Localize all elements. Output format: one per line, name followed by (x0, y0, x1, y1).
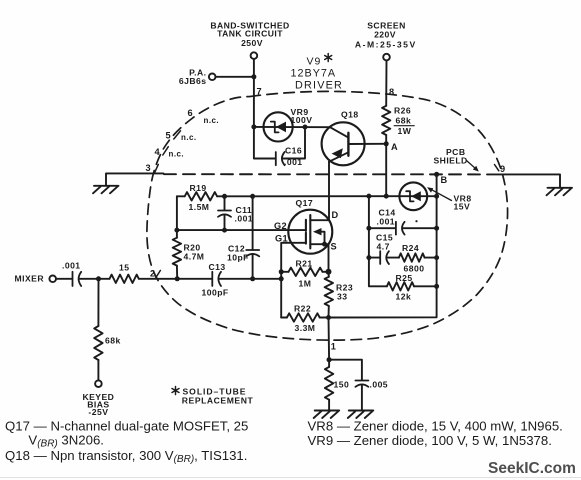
svg-text:n.c.: n.c. (169, 150, 185, 159)
wire: G1 leg (281, 243, 306, 318)
svg-text:100V: 100V (291, 115, 313, 125)
wire: G2 row (177, 229, 306, 231)
svg-text:33: 33 (337, 291, 347, 301)
svg-text:R22: R22 (294, 303, 311, 313)
svg-text:12k: 12k (396, 291, 412, 301)
svg-text:C16: C16 (285, 146, 302, 156)
resistor R25 12k (387, 273, 437, 301)
svg-text:1.5M: 1.5M (189, 202, 210, 212)
capacitor C14 .001 (369, 207, 437, 234)
node: VR8 right (434, 194, 439, 199)
svg-text:6: 6 (188, 108, 193, 118)
node: R22/R23/pin1 junction (326, 315, 331, 320)
svg-text:C13: C13 (209, 262, 226, 272)
svg-text:n.c.: n.c. (204, 116, 220, 125)
resistor R20 4.7M (173, 230, 205, 279)
resistor R22 3.3M (281, 303, 328, 333)
svg-text:R25: R25 (396, 273, 413, 283)
svg-text:R21: R21 (296, 259, 313, 269)
node: VR9 right / C16 / Q18 base junction (303, 125, 308, 130)
pin tick 9 (495, 165, 499, 171)
svg-text:-25V: -25V (88, 407, 108, 417)
terminal: P.A. 6JB6s (179, 67, 216, 86)
node: R25 right (434, 284, 439, 289)
svg-text:1M: 1M (299, 278, 312, 288)
capacitor C13 100pF (177, 262, 252, 297)
svg-text:4: 4 (155, 147, 161, 157)
svg-text:Q17 — N-channel dual-gate MOSF: Q17 — N-channel dual-gate MOSFET, 25 (5, 419, 248, 434)
resistor R21 1M (281, 259, 328, 289)
svg-text:Q17: Q17 (296, 198, 314, 208)
node: source/R21/R23 junction (326, 269, 332, 275)
svg-text:SeekIC.com: SeekIC.com (488, 460, 576, 477)
node: substrate-source tie (322, 242, 327, 247)
svg-text:15: 15 (119, 262, 129, 272)
wire: C16 left leg (254, 127, 275, 159)
svg-text:68k: 68k (396, 116, 412, 126)
node: C14/C15 left bus top (366, 194, 371, 199)
node: R20 bottom (175, 276, 180, 281)
legend: solid-tube replacement (0, 0, 1, 1)
svg-text:3: 3 (146, 163, 151, 173)
svg-text:1W: 1W (398, 126, 412, 136)
node: R21 left / G1 (279, 269, 284, 274)
svg-text:250V: 250V (241, 38, 263, 48)
resistor R19 1.5M (185, 183, 217, 212)
wire: row end to G1 bus (253, 278, 282, 280)
svg-text:n.c.: n.c. (181, 133, 197, 142)
capacitor .005 (329, 360, 388, 411)
wire: C16 right leg up to base node (283, 127, 305, 159)
pin 6 n.c. (188, 108, 220, 125)
svg-text:Q18: Q18 (341, 109, 359, 119)
svg-text:MIXER: MIXER (15, 273, 45, 283)
terminal: keyed bias -25V (82, 380, 114, 417)
terminal: band-switched tank circuit 250V (210, 21, 289, 59)
svg-text:.005: .005 (370, 380, 389, 390)
svg-text:VR8 — Zener diode, 15 V, 400 m: VR8 — Zener diode, 15 V, 400 mW, 1N965. (308, 419, 563, 434)
svg-text:TANK CIRCUIT: TANK CIRCUIT (217, 29, 283, 39)
wire: P.A. to junction (216, 76, 254, 78)
wire: node A down to feedback row (385, 144, 387, 196)
MOSFET Q17 (274, 198, 339, 254)
resistor 15 (99, 262, 178, 283)
wire: pin7 node to Q18 base (254, 126, 330, 128)
svg-text:10pF: 10pF (227, 253, 249, 263)
svg-text:.001: .001 (62, 260, 81, 270)
pin 2 tick (155, 270, 160, 278)
scan artifact line (0, 477, 581, 479)
wire: pin 1 down (328, 318, 331, 360)
svg-text:A: A (391, 142, 398, 152)
node: pin7/VR9 junction (251, 124, 256, 129)
label: V9* 12BY7A DRIVER (307, 56, 322, 68)
svg-text:VR9 — Zener diode, 100 V, 5 W,: VR9 — Zener diode, 100 V, 5 W, 1N5378. (308, 433, 552, 448)
resistor R23 33 (325, 272, 354, 318)
node: C11 bottom (222, 228, 227, 233)
svg-text:SHIELD: SHIELD (434, 156, 468, 166)
svg-text:4.7: 4.7 (377, 242, 390, 252)
capacitor C15 4.7 (369, 233, 399, 264)
wire: source down (328, 244, 330, 272)
svg-text:G2: G2 (274, 221, 287, 231)
pin 9 wire to ground (490, 174, 560, 187)
feedback row wire (R19 row) (177, 195, 437, 197)
node: R24 right (434, 255, 439, 260)
node: A-row junction (384, 194, 389, 199)
svg-text:DRIVER: DRIVER (295, 79, 343, 91)
ground (pin 9) (547, 188, 573, 196)
node: C15 left (366, 255, 371, 260)
svg-text:R19: R19 (190, 183, 207, 193)
svg-text:4.7M: 4.7M (184, 252, 205, 262)
node: C14 right (434, 226, 439, 231)
node: cathode junction (327, 357, 332, 362)
terminal: MIXER (15, 273, 56, 283)
node: 68k tap (96, 276, 101, 281)
svg-text:3.3M: 3.3M (295, 323, 316, 333)
resistor R24 6800 (399, 243, 437, 274)
node: P.A. junction (251, 74, 256, 79)
caption line Q17 (5, 419, 248, 450)
svg-text:9: 9 (500, 164, 505, 174)
zener diode VR8 15V (399, 182, 427, 210)
svg-text:B: B (441, 175, 448, 185)
svg-text:V9: V9 (307, 56, 322, 68)
wire: R19 left leg (176, 196, 178, 230)
svg-text:2: 2 (150, 268, 155, 278)
node: G2/R20 junction (174, 228, 179, 233)
svg-text:220V: 220V (374, 29, 396, 39)
wire: node B down right-side bus (329, 174, 437, 317)
wire: pin 7 vertical (253, 77, 255, 127)
svg-text:15V: 15V (454, 202, 471, 212)
svg-text:5: 5 (166, 130, 171, 140)
svg-text:1: 1 (331, 342, 336, 352)
pin 4 n.c. (155, 147, 185, 159)
svg-text:S: S (331, 241, 337, 251)
transistor Q18 (322, 109, 387, 165)
node: C14 left (366, 226, 371, 231)
shield dashed line across (164, 173, 489, 175)
pin 3 wire to ground (106, 173, 164, 185)
capacitor C12 10pF (227, 196, 259, 278)
wire: 250V terminal down to P.A. junction (253, 59, 255, 77)
svg-text:Q18 — Npn transistor, 300 V(BR: Q18 — Npn transistor, 300 V(BR), TIS131. (5, 448, 247, 465)
node: C12 bottom (250, 276, 255, 281)
node B (434, 172, 439, 177)
node: C11 top (222, 194, 227, 199)
svg-text:.001: .001 (235, 213, 254, 223)
svg-text:.001: .001 (377, 216, 396, 226)
resistor R26 (382, 105, 414, 136)
svg-text:R26: R26 (394, 105, 411, 115)
label VR8 15V with arrow (427, 187, 472, 211)
wire: left bus of feedback network (369, 196, 387, 286)
wire: R26 to node A (385, 135, 387, 144)
resistor 150 (325, 360, 349, 411)
svg-text:6JB6s: 6JB6s (179, 76, 207, 86)
label: PCB SHIELD with arrow (434, 147, 479, 171)
svg-text:12BY7A: 12BY7A (291, 68, 337, 80)
svg-text:68k: 68k (105, 335, 121, 345)
svg-text:REPLACEMENT: REPLACEMENT (182, 395, 254, 405)
node: C12 top (250, 194, 255, 199)
svg-text:150: 150 (334, 380, 350, 390)
capacitor C16 .001 (276, 146, 303, 167)
svg-text:100pF: 100pF (202, 288, 229, 298)
zener diode VR9 100V (264, 107, 313, 142)
wire: Q18 emitter down to Q17 drain (328, 162, 330, 221)
svg-text:D: D (332, 210, 339, 220)
node A (384, 141, 389, 146)
capacitor C11 .001 (218, 196, 253, 230)
ground (150) (314, 411, 340, 419)
ground (pin 3) (93, 186, 119, 194)
node: mixer row / G1 bus (279, 276, 284, 281)
pin 3 tick (154, 164, 158, 173)
svg-text:R24: R24 (402, 243, 419, 253)
capacitor .001 (input) (56, 260, 99, 286)
svg-text:6800: 6800 (404, 263, 425, 273)
ground (.005) (348, 411, 374, 419)
svg-text:A-M:25-35V: A-M:25-35V (355, 40, 417, 50)
terminal: screen 220V (355, 20, 417, 60)
resistor 68k (94, 279, 121, 381)
pin 5 n.c. (166, 130, 197, 142)
PCB shield dashed outline (tube envelope) (147, 91, 508, 340)
wire: screen terminal to R26 (385, 60, 387, 105)
